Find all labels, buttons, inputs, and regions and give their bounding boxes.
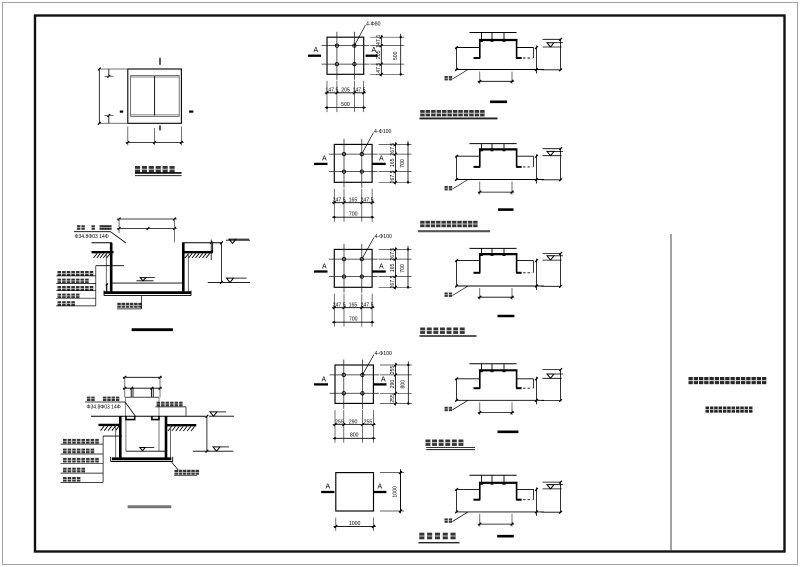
pit section top dim line inner — [117, 228, 177, 230]
elev E5 pedestal flanges below floor (thick) — [474, 499, 481, 501]
pit section top dim line outer — [117, 218, 177, 220]
plan P1 outline square — [327, 37, 364, 74]
plan P2 bolt count label leader — [362, 133, 374, 155]
svg-text:4-Φ100: 4-Φ100 — [375, 234, 393, 240]
elev E4 floor level symbol — [543, 377, 562, 379]
plan P2 right dimension lines — [379, 143, 412, 145]
elev E5 mid depth dim line right — [536, 487, 538, 516]
elev E5 pedestal top (thick) — [479, 482, 518, 484]
elev E5 anchor bolts — [481, 475, 483, 484]
elev E1 left height dim line — [456, 48, 458, 70]
plan P1 right dimension lines — [370, 36, 404, 38]
elev E1 mid depth dim line right — [536, 46, 538, 74]
title 1 生活水泵(稳压泵)基础 — [420, 110, 484, 116]
elev E5 floor line right — [517, 488, 534, 490]
svg-text:1000: 1000 — [393, 486, 399, 498]
pit section slab thickness dim right — [210, 240, 212, 261]
elev E4 scale bar — [498, 430, 519, 433]
pit section wall base dim tick — [106, 284, 108, 293]
elev E5 bottom width dim line — [479, 514, 481, 527]
elev E4 foundation bottom line — [456, 399, 545, 401]
elev E2 flange dashed line right — [519, 166, 533, 168]
svg-text:165: 165 — [390, 263, 396, 272]
svg-text:700: 700 — [400, 159, 406, 168]
elev E3 pedestal flanges below floor (thick) — [474, 272, 481, 274]
svg-text:267.5: 267.5 — [390, 248, 396, 261]
elev E5 scale bar — [497, 535, 514, 538]
pedestal section slab soffit right (thick) — [165, 424, 196, 426]
pedestal section pit right wall inner face — [158, 420, 160, 452]
svg-text:A: A — [379, 156, 384, 163]
svg-text:800: 800 — [401, 380, 407, 389]
pit section floor slab soffit right (thick) — [182, 251, 213, 253]
elev E3 pedestal top (thick) — [479, 253, 518, 255]
elev E4 compacted soil leader and label — [453, 400, 469, 410]
elev E1 foundation bottom line — [456, 69, 545, 71]
plan P1 bottom dimension lines — [326, 81, 328, 112]
pit section right wall outer face — [187, 252, 189, 292]
elev E2 left height dim line — [456, 156, 458, 179]
elev E4 floor line left — [456, 378, 480, 380]
pedestal section pit inner bottom line — [126, 450, 165, 452]
plan P3 bolt count label leader — [362, 238, 374, 260]
pit section inner bottom line — [113, 282, 183, 284]
elev E3 scale bar — [498, 315, 515, 318]
elev E1 floor level symbol — [543, 46, 562, 48]
pit section water level symbol — [137, 280, 154, 282]
elev E5 foundation bottom line — [456, 511, 545, 513]
elev E2 compacted soil leader and label — [453, 180, 469, 190]
pedestal section pit right wall outer face — [170, 425, 172, 458]
pedestal section pit left wall inner face — [125, 420, 127, 452]
plan P3 right dimension lines — [379, 248, 412, 250]
plan P4 anchor bolt circles — [342, 373, 345, 376]
elev E3 overall height dim right — [543, 252, 562, 254]
elev E3 foundation bottom line — [456, 285, 545, 287]
elev E2 floor line right — [517, 155, 534, 157]
elev E1 overall height dim right — [543, 38, 562, 40]
plan P2 bottom dimension lines — [333, 189, 335, 222]
elev E4 left height dim line — [456, 379, 458, 401]
plan P3 bolt centerlines — [329, 258, 378, 260]
elev E3 mid depth dim line right — [536, 259, 538, 290]
svg-text:147.5: 147.5 — [376, 63, 382, 76]
pedestal section bolt dim line — [123, 387, 162, 389]
svg-text:205: 205 — [341, 88, 350, 94]
svg-text:290: 290 — [390, 380, 396, 389]
elev E2 mid depth dim line right — [536, 154, 538, 183]
svg-text:255: 255 — [390, 365, 396, 374]
svg-text:1000: 1000 — [349, 521, 361, 527]
title block project name text — [689, 377, 767, 384]
pit section slab end cut line right — [212, 243, 214, 253]
title 2 生活水泵(主泵)基础 — [420, 221, 477, 227]
svg-text:4-Φ100: 4-Φ100 — [375, 351, 393, 357]
elev E1 floor line right — [517, 47, 534, 49]
elev E1 pump baseplate top line — [470, 32, 517, 34]
elev E5 flange dashed line right — [519, 499, 533, 501]
title 5 气压罐基础 — [419, 533, 455, 540]
svg-text:A: A — [326, 484, 331, 491]
sump pit plan center partition line — [154, 76, 156, 116]
pit section hatch under right soffit — [185, 254, 210, 259]
elev E2 floor level symbol — [543, 155, 562, 157]
svg-text:Φ34.8Φ03 14Φ: Φ34.8Φ03 14Φ — [87, 404, 121, 410]
elev E1 pedestal flanges below floor (thick) — [474, 57, 481, 59]
elev E2 anchor bolts — [481, 144, 483, 151]
svg-text:267.5: 267.5 — [390, 275, 396, 288]
elev E2 floor line left — [456, 155, 480, 157]
elev E4 pump baseplate top line — [470, 363, 517, 365]
pit section left wall (thick) — [110, 243, 113, 293]
sump pit plan title underline — [135, 172, 182, 174]
elev E5 compacted soil leader and label — [453, 512, 469, 522]
pit section depth dim line right — [221, 243, 223, 283]
sump pit plan outer square — [128, 69, 182, 123]
sump pit plan right axis dash — [189, 110, 193, 112]
pit section scale bar — [132, 328, 173, 331]
elev E3 anchor bolts — [481, 248, 483, 255]
sump pit plan left dim line inner — [108, 69, 110, 77]
elev E3 left height dim line — [456, 261, 458, 286]
pit section upper level symbol right — [226, 239, 250, 241]
pit section blinding layer label 素混凝土垫层 — [117, 303, 142, 308]
pit section anchor-hole leader note — [77, 225, 85, 230]
pit cover rebate notch left — [126, 416, 135, 419]
pedestal section blinding label 素混凝土垫层 — [171, 462, 178, 470]
plan P3 anchor bolt circles — [342, 257, 345, 260]
elev E2 overall height dim right — [543, 148, 562, 150]
title 4 消火栓泵基础 — [426, 440, 464, 446]
pit section right wall (thick) — [182, 243, 185, 293]
svg-text:A: A — [378, 484, 383, 491]
pedestal section depth dim line right — [206, 416, 208, 451]
elev E1 compacted soil leader and label — [453, 70, 469, 80]
pedestal section upper level symbol right — [209, 415, 234, 417]
elev E3 flange dashed line right — [519, 272, 533, 274]
pedestal bolt leader note left — [87, 397, 95, 401]
svg-text:165: 165 — [349, 198, 358, 204]
svg-text:255: 255 — [364, 419, 373, 425]
pedestal section pit right wall (thick) — [165, 416, 168, 459]
title block divider line — [670, 234, 672, 552]
svg-text:147.5: 147.5 — [353, 88, 366, 94]
svg-text:247.5: 247.5 — [333, 198, 346, 204]
plan P4 outline square — [335, 365, 373, 403]
elev E1 flange dashed line right — [519, 57, 533, 59]
svg-text:A: A — [322, 264, 327, 271]
sump pit plan bottom axis tick — [159, 125, 161, 130]
elev E4 overall height dim right — [543, 369, 562, 371]
svg-text:267.5: 267.5 — [390, 170, 396, 183]
pedestal section floor slab top line — [91, 415, 206, 417]
pedestal section water level symbol in pit — [140, 448, 145, 451]
svg-text:290: 290 — [349, 419, 358, 425]
elev E5 pedestal sides — [479, 483, 481, 500]
pit section floor slab soffit left (thick) — [92, 251, 114, 253]
elev E2 pedestal sides — [479, 149, 481, 167]
svg-text:Φ34.8Φ03 14Φ: Φ34.8Φ03 14Φ — [75, 234, 109, 240]
pedestal concrete leader note right 钢筋混凝土板 — [157, 402, 183, 407]
plan P3 bottom dimension lines — [333, 294, 335, 327]
svg-text:800: 800 — [350, 433, 359, 439]
elev E3 floor level symbol — [543, 259, 562, 261]
pedestal section hatch under left soffit — [101, 426, 120, 431]
plan P2 anchor bolt circles — [342, 152, 345, 155]
svg-text:147.5: 147.5 — [325, 88, 338, 94]
elev E4 mid depth dim line right — [536, 377, 538, 405]
plan P1 bolt count label leader — [354, 25, 365, 46]
svg-text:255: 255 — [335, 419, 344, 425]
elev E2 bottom width dim line — [479, 182, 481, 195]
elev E2 foundation bottom line — [456, 179, 545, 181]
plan P2 outline square — [334, 144, 372, 182]
pedestal side lines — [124, 397, 126, 416]
pedestal section pit left wall outer face — [115, 425, 117, 458]
svg-text:500: 500 — [393, 51, 399, 60]
svg-text:205: 205 — [376, 50, 382, 59]
elev E3 pump baseplate top line — [470, 247, 517, 249]
svg-text:247.5: 247.5 — [333, 303, 346, 309]
sump pit plan left axis dash — [120, 110, 123, 112]
sump pit plan left dim line outer — [98, 69, 100, 123]
elev E1 scale bar — [490, 101, 507, 104]
elev E3 bottom width dim line — [479, 288, 481, 300]
pit section floor slab top line right — [182, 242, 221, 244]
svg-text:A: A — [322, 377, 327, 384]
plan P5 right dimension lines — [380, 472, 404, 474]
elev E1 bottom width dim line — [479, 72, 481, 84]
plan P4 right dimension lines — [380, 364, 412, 366]
svg-text:147.5: 147.5 — [376, 35, 382, 48]
plan P5 outline square — [336, 473, 374, 511]
elev E4 anchor bolts — [481, 364, 483, 372]
svg-text:165: 165 — [390, 158, 396, 167]
pedestal section pit left wall (thick) — [119, 416, 122, 459]
elev E2 scale bar — [498, 208, 514, 211]
pedestal section lower level symbol right — [193, 450, 233, 452]
elev E4 pedestal top (thick) — [479, 369, 518, 371]
svg-text:267.5: 267.5 — [390, 143, 396, 156]
elev E5 overall height dim right — [543, 481, 562, 483]
svg-text:700: 700 — [400, 264, 406, 273]
elev E3 compacted soil leader and label — [453, 286, 469, 296]
sump pit plan title 集水坑大样图 — [135, 166, 175, 172]
elev E2 pump baseplate top line — [470, 143, 517, 145]
svg-text:4-Φ80: 4-Φ80 — [366, 22, 381, 28]
plan P1 anchor bolt circles — [335, 44, 338, 47]
elev E2 pedestal flanges below floor (thick) — [474, 166, 481, 168]
title 3 消防喷淋泵基础 — [420, 328, 464, 334]
pedestal section anchor bolts — [130, 388, 132, 397]
plan P1 bolt centerlines — [322, 45, 370, 47]
sump pit plan inner wall rect — [131, 76, 180, 117]
pedestal section left material labels with leaders — [63, 439, 99, 444]
pedestal section slab soffit left (thick) — [99, 424, 122, 426]
svg-text:255: 255 — [390, 394, 396, 403]
pit section lower level symbol right — [208, 281, 250, 283]
plan P4 bolt count label leader — [362, 355, 374, 375]
pit section hatch under left soffit — [94, 254, 111, 259]
elev E1 anchor bolts — [481, 33, 483, 42]
sump pit plan inner bottom line — [131, 114, 180, 116]
elev E4 pedestal sides — [479, 370, 481, 388]
pedestal section top dim line overall — [123, 376, 162, 378]
elev E1 pedestal top (thick) — [479, 39, 518, 41]
sump pit plan top axis tick — [159, 58, 161, 65]
svg-text:247.5: 247.5 — [361, 198, 374, 204]
pedestal section bottom slab (thick) — [112, 457, 171, 460]
elev E4 bottom width dim line — [479, 402, 481, 415]
pedestal section edge extension lines — [124, 377, 126, 397]
sump pit plan inner top line — [131, 76, 180, 78]
elev E5 pump baseplate top line — [470, 474, 517, 476]
plan P4 bolt centerlines — [330, 374, 379, 376]
svg-text:4-Φ100: 4-Φ100 — [374, 129, 392, 135]
pit section left wall outer face — [105, 252, 107, 292]
pedestal top line — [125, 396, 159, 398]
plan P3 outline square — [334, 249, 372, 287]
elev E3 floor line right — [517, 260, 534, 262]
elev E5 floor level symbol — [543, 488, 562, 490]
svg-text:A: A — [314, 47, 319, 54]
pit cover rebate notch right — [152, 416, 159, 419]
svg-text:700: 700 — [349, 212, 358, 218]
pedestal section hatch under right soffit — [168, 427, 195, 432]
plan P5 bottom dimension lines — [335, 518, 337, 531]
elev E1 pedestal sides — [479, 40, 481, 58]
pit section bottom slab (thick) — [104, 291, 191, 294]
svg-text:A: A — [379, 264, 384, 271]
svg-text:A: A — [381, 377, 386, 384]
plan P4 bottom dimension lines — [334, 410, 336, 443]
svg-text:165: 165 — [349, 303, 358, 309]
elev E4 floor line right — [517, 378, 534, 380]
svg-text:700: 700 — [349, 317, 358, 323]
pedestal section scale bar — [128, 505, 172, 508]
elev E5 left height dim line — [456, 489, 458, 512]
pit section floor slab top line left — [92, 242, 113, 244]
sump pit plan bottom dim line — [126, 141, 184, 143]
elev E3 pedestal sides — [479, 254, 481, 273]
pit section left material labels with leaders — [58, 271, 94, 276]
svg-text:A: A — [322, 156, 327, 163]
elev E4 pedestal flanges below floor (thick) — [474, 387, 481, 389]
elev E2 pedestal top (thick) — [479, 148, 518, 150]
elev E5 floor line left — [456, 488, 480, 490]
svg-text:500: 500 — [341, 102, 350, 108]
plan P2 bolt centerlines — [329, 153, 378, 155]
elev E3 floor line left — [456, 260, 480, 262]
elev E4 flange dashed line right — [519, 387, 533, 389]
title block drawing name text — [706, 407, 753, 413]
elev E1 floor line left — [456, 47, 480, 49]
svg-text:247.5: 247.5 — [361, 303, 374, 309]
